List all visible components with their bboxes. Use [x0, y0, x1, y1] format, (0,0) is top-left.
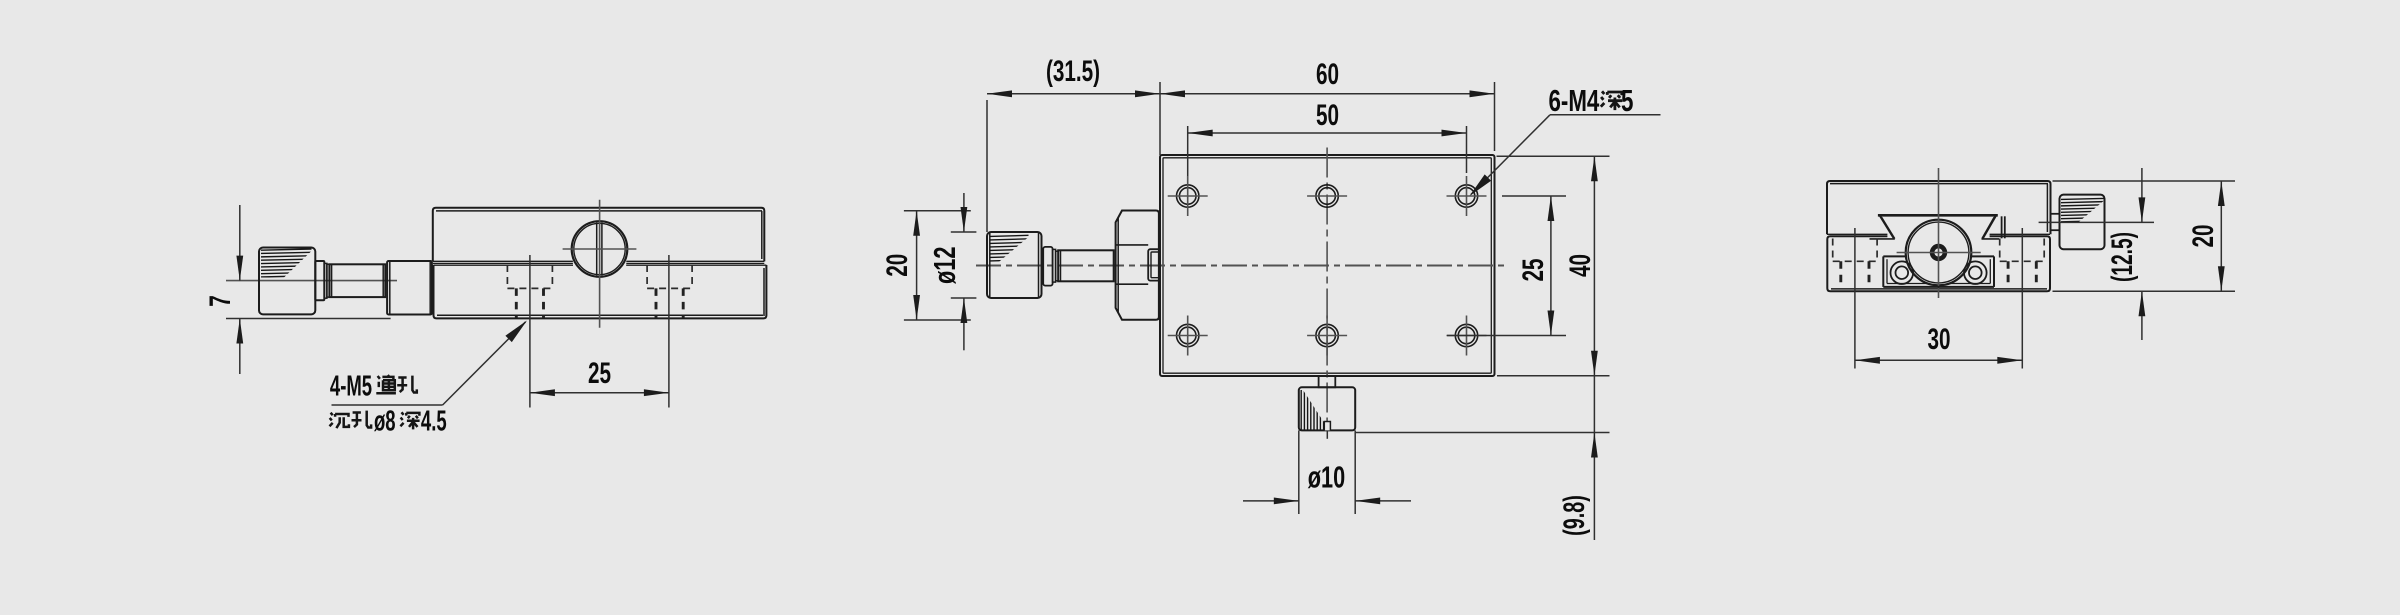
dimension 60 extension lines — [1159, 82, 1161, 155]
dimension 40 — [1593, 156, 1595, 376]
middle view: vertical centerline through middle holes — [1326, 148, 1328, 422]
middle view: bottom lock knob — [1299, 387, 1355, 430]
dimension 60 — [1160, 93, 1495, 95]
left view: micrometer knurled knob — [259, 248, 315, 315]
left view: plate/base interface lines — [433, 262, 573, 264]
dimension 25 (left view hole spacing) — [530, 392, 669, 394]
dimension 25 (middle view) — [1550, 196, 1552, 336]
dimension 50 — [1188, 132, 1467, 134]
left view: spindle taper rings — [324, 263, 327, 298]
note underline 6-M4 — [1550, 114, 1661, 116]
svg-text:5: 5 — [1621, 83, 1633, 117]
middle view: micrometer spindle — [1058, 250, 1114, 281]
left view: micrometer mounting bracket block — [387, 261, 432, 315]
left view: screw horizontal centerline — [563, 248, 637, 250]
dimension 20 (right view) — [2220, 181, 2222, 291]
right view: right M5 dashed — [2007, 261, 2010, 287]
middle view: bottom knob slot notch — [1324, 422, 1330, 431]
svg-text:25: 25 — [1517, 258, 1550, 281]
left view: knob step collar — [315, 261, 324, 300]
svg-text:6-M4: 6-M4 — [1549, 83, 1600, 117]
leader 6-M4 depth 5 — [1471, 115, 1550, 195]
middle view: main stage rectangle (60x40) — [1160, 155, 1495, 376]
dimension dia12 arrows — [963, 193, 965, 232]
middle view: spindle coupling into stage — [1148, 249, 1160, 280]
dimension dia12 extension stubs — [951, 231, 977, 233]
right view: knob axis centerline — [2039, 221, 2154, 223]
right view: left counterbore dashed — [1832, 239, 1834, 262]
left view: base body — [434, 265, 767, 318]
dimension 20 extension lines (right view) — [2053, 180, 2236, 182]
right view: left M5 dashed — [1839, 261, 1842, 287]
left view: right hole centerline extension — [668, 255, 670, 408]
svg-text:40: 40 — [1564, 254, 1597, 277]
right view: side lock knob stem — [2051, 213, 2060, 215]
right view: vertical centerline — [1938, 168, 1940, 298]
svg-text:ø8: ø8 — [374, 406, 396, 438]
dimension 20 block extension stubs — [904, 210, 971, 212]
right view: base body — [1827, 236, 2050, 291]
svg-text:(31.5): (31.5) — [1046, 55, 1100, 88]
dimension 7 vertical line and arrows — [239, 205, 241, 281]
middle view: mounting block — [1116, 211, 1159, 320]
dimension 50 extension lines — [1187, 126, 1189, 176]
dimension 30 — [1855, 359, 2022, 361]
dimension 7 extension line bottom — [226, 318, 391, 320]
dimension (31.5) extension line at knob — [986, 100, 988, 232]
left view: micrometer spindle shaft — [329, 264, 385, 297]
dimension (9.8) — [1593, 376, 1595, 540]
svg-text:20: 20 — [881, 254, 914, 277]
note underline 4-M5 — [332, 404, 443, 406]
left view: screw vertical centerline — [599, 200, 601, 328]
left view: left counterbore hole dashed (outer dia 8) — [506, 265, 508, 288]
left view: top sliding plate — [433, 208, 765, 262]
dimension 25 extension lines (middle) — [1502, 195, 1566, 197]
dimension dia10 extension lines — [1298, 430, 1300, 514]
svg-text:4.5: 4.5 — [421, 406, 447, 438]
svg-text:ø10: ø10 — [1308, 460, 1345, 495]
middle view: horizontal dash-dot centerline — [976, 265, 1505, 267]
right view: dovetail top line — [1878, 214, 1998, 217]
left view: right M5 thread dashed — [655, 288, 658, 318]
svg-text:50: 50 — [1316, 99, 1339, 132]
left view: axis centerline of micrometer — [226, 280, 397, 282]
svg-text:4-M5: 4-M5 — [330, 371, 372, 403]
dimension 30 extension lines — [1854, 228, 1856, 369]
dimension dia10 — [1243, 500, 1299, 502]
right view: center hole cross horizontal — [1897, 252, 1981, 254]
right view: side lock knob — [2060, 195, 2105, 250]
middle view: micrometer knob — [987, 232, 1042, 298]
svg-text:60: 60 — [1316, 58, 1339, 91]
right view: carriage plate — [1883, 255, 1906, 257]
right view: right dovetail wing — [1981, 215, 1997, 240]
left view: screw slot lines — [596, 223, 598, 276]
note text counterbore dia8 depth 4.5 — [330, 413, 349, 428]
dimension 40 extension lines — [1497, 155, 1610, 157]
dimension (12.5) — [2141, 168, 2143, 222]
right view: right counterbore dashed — [1999, 239, 2001, 262]
svg-text:(12.5): (12.5) — [2106, 232, 2139, 282]
right view: plate/base split lines — [1827, 233, 1887, 235]
middle view: six M4 tapped holes — [1177, 185, 1199, 207]
right view: right washer — [1964, 261, 1987, 284]
right view: left dovetail wing — [1878, 215, 1895, 240]
dimension (31.5) — [987, 93, 1160, 95]
svg-text:ø12: ø12 — [927, 247, 962, 284]
left view: left M5 thread dashed — [515, 288, 518, 318]
right view: leadscrew bearing circle — [1906, 220, 1972, 286]
leader line for 4-M5 note — [443, 322, 526, 405]
dimension 20 (block height) — [916, 211, 918, 320]
dimension (9.8) extension line — [1355, 432, 1609, 434]
left view: base top edge segments beside lock screw — [434, 264, 574, 266]
middle view: bottom lock knob neck — [1319, 376, 1336, 387]
svg-text:20: 20 — [2187, 224, 2220, 247]
svg-text:30: 30 — [1927, 323, 1950, 356]
right view: gib lines — [2001, 216, 2003, 238]
right view: left washer — [1891, 261, 1914, 284]
svg-text:7: 7 — [204, 295, 237, 307]
left view: right counterbore hole dashed (outer dia 8) — [646, 265, 648, 288]
middle view: spindle taper rings — [1043, 247, 1052, 286]
right view: center hole thick ring — [1932, 246, 1945, 259]
right view: top plate — [1827, 181, 2051, 234]
svg-text:25: 25 — [588, 357, 611, 390]
left view: left hole centerline extension — [529, 255, 531, 408]
svg-text:(9.8): (9.8) — [1558, 495, 1591, 536]
left view: lock screw head circle — [572, 221, 628, 277]
